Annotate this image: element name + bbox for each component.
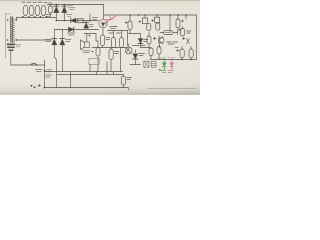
wire: mid rail y20.5 [56, 20, 98, 22]
node dots on mid rail [56, 20, 66, 22]
wire: right edge vertical x196 [195, 15, 197, 60]
wire: vertical x54 down to diode D6 [53, 30, 55, 39]
diode D6 (upward, x54) [52, 39, 57, 88]
label text mid right row [167, 37, 190, 44]
series box after D3 [78, 19, 84, 23]
wire: y65 stub near D8 [130, 64, 141, 66]
wire: centre tap horizontal [17, 39, 52, 41]
capacitor C3 (x182) [175, 47, 184, 60]
wire: verticals from y30.5 rail to resistor tops [114, 31, 128, 38]
resistor R3 (x151, y48) [149, 48, 153, 60]
wire: y33.5 stub to D9 [129, 33, 141, 35]
wire: verticals to bottom rail [90, 48, 121, 72]
speaker LS1 [81, 34, 96, 50]
wire: vertical x186 short [185, 15, 187, 19]
label text left of D6 [45, 40, 51, 42]
wire: bottom-most rail y87.5 [45, 88, 129, 91]
wire: vertical x70 [70, 72, 72, 88]
node dot with 0V label [36, 70, 53, 89]
label text right of R10 [127, 78, 132, 80]
wire: vertical x127.5 to Q2 [127, 37, 129, 46]
plus mark right of C2 [181, 20, 183, 22]
wire: C1 bottom into y30.5 rail junction [129, 30, 131, 32]
wire: bottom rail y74.5 [57, 74, 123, 76]
wire: pot out to lower mid rail [107, 30, 128, 32]
resistor R12 (x182.5, y28.5) [181, 27, 185, 37]
label text above D3 [67, 15, 73, 17]
faint pencil line bottom right [148, 88, 196, 90]
connector box X2 [151, 62, 156, 68]
fuse F1 [49, 5, 53, 17]
junction tick at x90 [89, 14, 91, 21]
wire: y47.5 join D9 to R11 [141, 44, 160, 48]
label text above coils [22, 1, 52, 4]
diode D3 (left pointing) on mid rail [71, 18, 76, 23]
green label text above LED1 [158, 57, 166, 59]
label text right of D7 [66, 40, 72, 42]
green node dot left of LED1 [159, 69, 161, 71]
transistor Q1 cluster marks (row y36-44 right) [154, 36, 165, 44]
LED2 pink [170, 60, 174, 70]
wire: stubs between rails [97, 72, 114, 75]
diode D4 (right pointing) on y29.5 rail [69, 27, 74, 32]
transformer terminal dots [7, 19, 17, 41]
diode D9 (downward, x140.5) [138, 34, 142, 48]
resistor R4 (x159, y46.5) [157, 47, 161, 60]
diode D7 (upward, x62) [60, 39, 65, 72]
capacitor C2 (x178) [176, 15, 180, 31]
node dots on lower right rail [164, 59, 192, 61]
label text below speaker [83, 51, 94, 53]
label text right of bar stack [16, 45, 21, 47]
wire: horizontal under coils [17, 17, 57, 19]
node dots on top rail [56, 4, 66, 6]
wire: main right rail y15 [104, 14, 197, 16]
label text right of D9 [144, 40, 149, 42]
label text right of D5 [89, 25, 94, 27]
resistor R5 (x102.5, y35) [101, 35, 105, 48]
LED1 green [162, 60, 166, 70]
fuse F2 horizontal [160, 31, 177, 35]
wire: top rail left section [47, 4, 104, 6]
label text below LEDs [161, 71, 174, 73]
wire: left frame line [5, 14, 7, 59]
capacitor C4 (x191) [189, 47, 193, 60]
preset box VR2 [142, 15, 147, 24]
resistor R9 (x120 y37) [120, 38, 124, 48]
connector box X1 [144, 61, 149, 67]
relay box outline K1 [89, 58, 99, 64]
wire: transformer top terminal to rail [15, 18, 17, 20]
switch S1 on lower-left rail [31, 63, 37, 66]
marks right of F2 [178, 29, 192, 35]
wire: vertical bus x44 [44, 60, 46, 88]
label text right of tick [93, 18, 98, 20]
resistor R8 (x112? y37) [112, 38, 116, 48]
diode D2 (upward) [62, 5, 67, 21]
resistor R2 (x157.8) [156, 23, 160, 30]
resistor R1 (x148.8) [147, 23, 151, 30]
faint label text right of D2 [68, 6, 75, 10]
resistor R11 (x149, y36) [147, 32, 151, 48]
wire: lower-left rail [11, 64, 45, 66]
label text above Q2 [133, 45, 146, 47]
label text below 0V node [46, 75, 53, 77]
resistor R6 (x98, y47.5) [96, 34, 100, 72]
label text below D4 [68, 33, 76, 35]
node dots on right rail [129, 14, 187, 16]
wire: rail y29.5 [54, 29, 98, 31]
wire: vertical drop from top rail to potentiometer [103, 5, 105, 20]
transformer T1 secondary winding [6, 14, 15, 43]
wire: right lower rail y59.5 [150, 59, 196, 61]
wire: horizontal y47.5 connecting R5 R7 Q2 [92, 47, 121, 49]
transistor Q2 (circle, x129 y49) [121, 44, 132, 54]
plus mark left of VR3 [152, 19, 154, 21]
coil L1 loop row (primary winding drawn as 0000) [23, 5, 46, 15]
wire: vertical x62 from rail [61, 30, 63, 39]
preset box VR3 [155, 15, 160, 23]
wire: pot bottom lead [102, 28, 104, 35]
diode D5 (upward, x86) [84, 21, 89, 30]
capacitor C1 (x130) [128, 15, 132, 34]
resistor R10 (x123.5, y76) [121, 75, 125, 88]
node dots under coils [22, 16, 47, 18]
label text below fuse F1 [45, 15, 51, 17]
potentiometer VR1 with red mark [99, 19, 107, 27]
plus mark left of C1 [125, 21, 127, 23]
terminal dots bottom left [31, 85, 36, 88]
wire: down from bar stack to lower rail [10, 51, 12, 65]
wire: vertical x170 from rail to fuse row [169, 15, 171, 33]
resistor R7 (x111, y49) [109, 48, 113, 72]
plus mark near terminals [38, 84, 41, 86]
label text right of pot [110, 27, 118, 29]
label text right of D8 [139, 54, 145, 56]
label text right of R7 [115, 52, 120, 54]
red adjustment arrow on VR1 [105, 16, 116, 25]
wire: bottom rail y71.5 [45, 71, 123, 73]
plus mark left of VR2 [139, 20, 141, 22]
ground / core bar stack below transformer [8, 44, 15, 50]
zener diode D8 (x135) [133, 50, 138, 65]
label text right of R5 [106, 38, 110, 40]
label text above R8 R9 [109, 32, 121, 34]
diode D1 (upward) [54, 5, 59, 21]
paper background [0, 0, 200, 95]
